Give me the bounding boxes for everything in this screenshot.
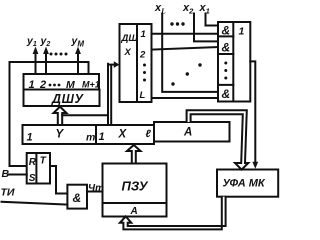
svg-text:УФА МК: УФА МК [223,178,266,190]
svg-text:T: T [40,156,47,167]
svg-text:1: 1 [141,29,146,40]
wire feedback M+1 output to R input [10,62,89,166]
wire B to S input [9,174,27,176]
svg-text:S: S [29,173,36,184]
wire OR output to UFA MK [250,61,258,168]
svg-text:R: R [29,157,37,168]
wire connector between Y bus and X bus [62,114,108,116]
wire DShX output L to AND L [152,97,219,99]
ellipsis dots between x labels [170,22,184,25]
svg-text:X: X [118,129,128,141]
ROM PZU box [103,164,167,204]
svg-text:yM: yM [71,35,85,49]
bus hollow arrow Y register to DShU [54,107,67,125]
AND-OR assembly box [218,22,250,102]
wire ChT read signal [87,191,103,193]
svg-text:M+1: M+1 [82,80,100,90]
bus hollow arrow PZU output to X register [127,145,141,164]
svg-text:ПЗУ: ПЗУ [122,179,149,194]
svg-text:&: & [222,87,231,101]
wire DShX output 2 to AND 2 [152,47,219,50]
svg-text:x2: x2 [182,2,194,16]
svg-text:ТИ: ТИ [1,187,15,199]
svg-text:y1: y1 [26,35,37,48]
svg-text:&: & [222,41,231,55]
svg-text:1: 1 [27,132,33,144]
bus hollow wire UFA MK output to PZU address register with arrow [120,197,226,230]
register A field [154,122,230,142]
svg-text:xL: xL [154,2,166,16]
wire x2 to AND 2 [194,14,218,42]
register X field [96,125,154,144]
wire x1 to AND 1 [206,14,219,26]
PZU address register A strip [103,203,167,217]
svg-text:A: A [130,206,138,217]
microcommand former UFA MK box [217,170,278,197]
wire DShX output 1 to AND 1 [152,33,219,35]
wire y2 output arrow [43,47,49,75]
flip-flop RS-T box [27,153,50,184]
svg-text:x1: x1 [199,2,210,16]
svg-text:Чт: Чт [88,183,104,194]
bus X register to DShX with arrow [108,61,119,124]
svg-text:y2: y2 [40,35,51,48]
svg-text:Y: Y [56,129,65,141]
svg-text:&: & [73,191,82,205]
svg-text:L: L [140,90,146,101]
svg-text:&: & [222,24,231,38]
wire T output to AND gate [50,166,67,194]
matrix dots [171,63,201,85]
register cells 1..M+1 strip [24,74,100,90]
wire TI to AND gate [2,202,68,205]
bus hollow wire A register to UFA MK with arrow [187,110,249,169]
ellipsis dots between y2 and yM [50,53,68,56]
decoder DShX box [120,24,152,102]
svg-text:ДШ: ДШ [121,33,139,44]
svg-text:ДШУ: ДШУ [51,92,84,106]
svg-text:1: 1 [239,26,245,38]
svg-text:1: 1 [99,131,105,143]
svg-text:2: 2 [139,50,146,61]
svg-text:m: m [86,132,95,144]
AND gate ChT [67,185,87,209]
register Y field [23,125,97,144]
svg-text:ℓ: ℓ [146,128,152,140]
wire y1 output arrow [33,47,39,75]
wire yM output arrow [75,47,81,75]
decoder DShU box [24,90,100,107]
wire xL to AND L [162,14,218,92]
svg-text:Х: Х [124,47,132,58]
svg-text:A: A [183,127,192,139]
